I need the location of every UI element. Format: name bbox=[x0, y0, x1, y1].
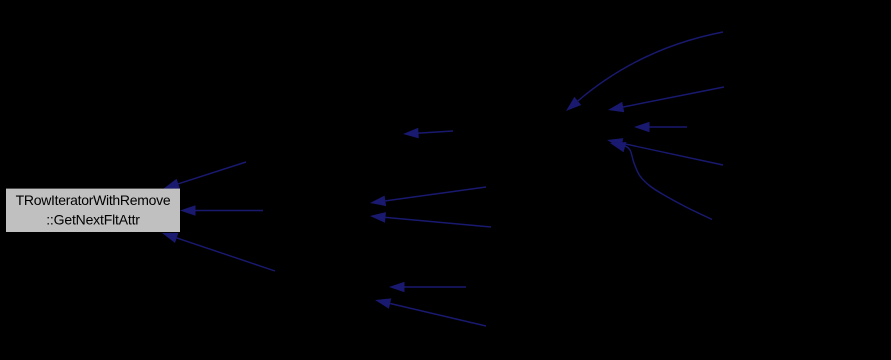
arrow J: head bbox=[375, 298, 391, 308]
arrow G: head bbox=[370, 196, 386, 207]
arrow A: curved shaft bbox=[578, 32, 723, 101]
arrow M: head bbox=[162, 233, 178, 243]
svg-text:TRowIteratorWithRemove: TRowIteratorWithRemove bbox=[16, 192, 171, 208]
arrow I: shaft bbox=[405, 286, 467, 288]
arrow K: head bbox=[164, 179, 180, 189]
arrow F: shaft bbox=[419, 131, 454, 133]
arrow A: head bbox=[566, 97, 581, 111]
node box: TRowIteratorWithRemove::GetNextFltAttr bbox=[6, 189, 180, 232]
arrow C: head bbox=[634, 122, 650, 133]
arrow H: head bbox=[370, 212, 386, 223]
arrow B: shaft bbox=[623, 87, 724, 107]
arrow G: shaft bbox=[385, 187, 486, 201]
arrow L: head bbox=[180, 205, 196, 216]
arrow F: head bbox=[403, 128, 419, 139]
arrow B: head bbox=[608, 102, 624, 112]
arrow J: shaft bbox=[390, 304, 486, 327]
arrow L: shaft bbox=[196, 210, 264, 212]
svg-text:::GetNextFltAttr: ::GetNextFltAttr bbox=[46, 211, 140, 227]
arrow H: shaft bbox=[385, 217, 491, 227]
arrow E: head bbox=[610, 142, 626, 152]
arrow D: shaft bbox=[622, 143, 723, 165]
arrow M: shaft bbox=[177, 238, 275, 271]
arrow D: head bbox=[607, 138, 623, 148]
arrow I: head bbox=[389, 282, 405, 293]
arrow C: shaft bbox=[650, 126, 688, 128]
arrow E: curved shaft bbox=[614, 144, 712, 220]
arrow K: shaft bbox=[178, 162, 246, 184]
